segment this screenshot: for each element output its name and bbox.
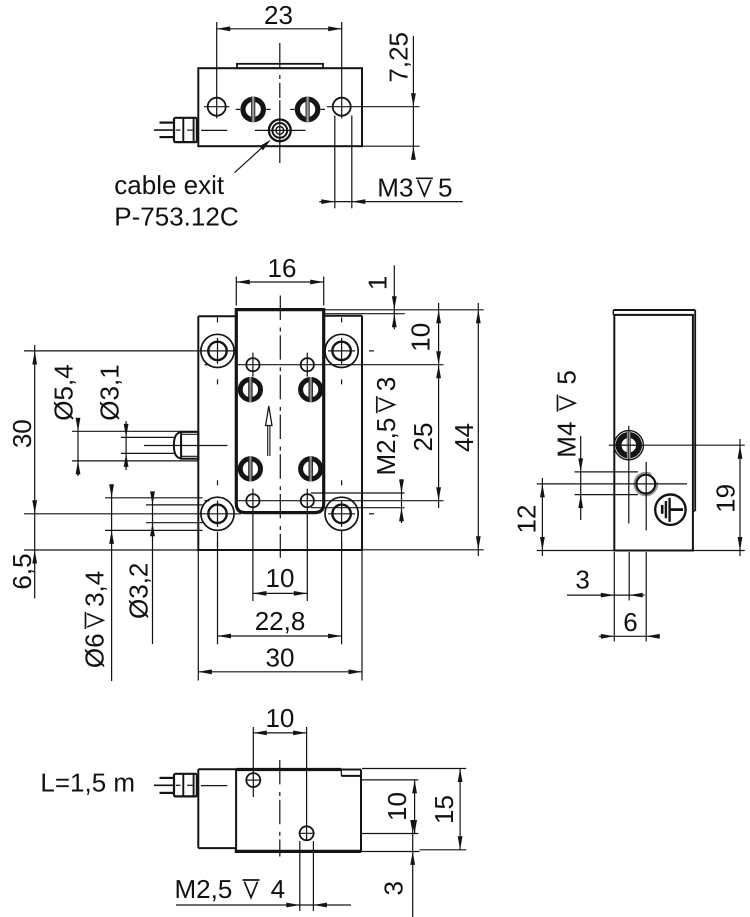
bottom view platform section (thick) (236, 768, 341, 771)
ground screw (655, 495, 685, 525)
12 reference line through M4 hole (537, 483, 687, 485)
extension lines below side body (613, 552, 615, 642)
M2,5 hole lower (bottom view) (300, 826, 314, 840)
wire 2 (top view) (154, 129, 174, 131)
M2,5 hole bottom-right (301, 494, 314, 507)
screw row line top (24, 350, 236, 352)
svg-text:M2,5: M2,5 (175, 874, 233, 904)
svg-text:10: 10 (406, 323, 436, 352)
svg-text:Ø3,2: Ø3,2 (124, 563, 154, 619)
hole axis horizontal / 19 reference (609, 444, 745, 446)
connector axis stubs (bottom view) (176, 784, 181, 786)
side body outline (614, 315, 693, 551)
svg-text:16: 16 (268, 253, 297, 283)
M2,5 hole top-right (301, 358, 314, 371)
svg-text:Ø6: Ø6 (80, 633, 110, 668)
svg-text:30: 30 (266, 643, 295, 673)
screw row line bottom (24, 513, 241, 515)
platform lip (side view) (613, 309, 695, 311)
wire 2 (bottom view) (154, 784, 174, 786)
dimension 3 (side) (567, 594, 645, 596)
svg-text:10: 10 (382, 792, 412, 821)
svg-text:cable exit: cable exit (114, 170, 225, 200)
dimension 6 (side) (599, 635, 660, 637)
svg-text:1: 1 (363, 276, 393, 290)
svg-text:10: 10 (265, 703, 294, 733)
svg-text:M2,5: M2,5 (371, 418, 401, 476)
cable lines (front view) (121, 436, 174, 438)
cable gland (front view) (174, 432, 181, 459)
platform screw top-right (301, 377, 321, 402)
dimension 10 top (bottom view) (253, 732, 306, 734)
svg-text:L=1,5 m: L=1,5 m (40, 768, 135, 798)
platform screw top-left (240, 377, 260, 402)
dimension 30 bottom (198, 671, 362, 673)
corner screw bottom-left (201, 480, 234, 547)
dimension 10 right (bottom view) (414, 780, 416, 834)
svg-text:15: 15 (429, 795, 459, 824)
cable gland connector (top view) (174, 118, 197, 142)
centre line (top view) (279, 43, 281, 98)
M4 hole axis vertical (645, 462, 647, 530)
corner screw bottom-right (325, 480, 374, 547)
M2,5 hole bottom-left (246, 494, 259, 507)
dimension 22,8 (218, 635, 342, 637)
moving platform outline (236, 310, 323, 513)
svg-text:P-753.12C: P-753.12C (114, 201, 238, 231)
dimension 30 left and 6,5 (34, 345, 36, 599)
svg-text:5: 5 (552, 370, 582, 384)
connector axis (front view) (144, 445, 228, 447)
dimension 23 (217, 28, 342, 30)
wire 3 (bottom view) (160, 792, 175, 794)
dimension 3 (bottom view) (412, 820, 414, 917)
centre line (bottom view) (279, 760, 281, 857)
dimension M2,5 depth 3 (401, 479, 403, 523)
dimension 1 (393, 265, 395, 329)
hole row extension lines to the right (362, 779, 418, 781)
dimension 19 (739, 439, 741, 556)
svg-text:12: 12 (512, 505, 542, 534)
wire 1 (top view) (160, 121, 175, 123)
svg-text:3: 3 (575, 565, 589, 595)
svg-text:M3: M3 (377, 172, 413, 202)
top view raised lip (237, 64, 323, 68)
cable bore (black filled hole, side view) (614, 431, 643, 460)
svg-text:M4: M4 (552, 422, 582, 458)
svg-text:3: 3 (371, 377, 401, 391)
cable exit crosshair (255, 129, 306, 131)
svg-text:10: 10 (266, 563, 295, 593)
platform screw bottom-left (240, 456, 260, 481)
slotted screw left (top view) (236, 97, 271, 123)
svg-text:5: 5 (438, 172, 452, 202)
svg-text:23: 23 (264, 0, 293, 30)
M2,5 thread reference lines (311, 492, 405, 494)
svg-text:3: 3 (379, 881, 409, 895)
dimension M2,5 depth 4 (299, 841, 301, 911)
dimension 10 right (438, 303, 440, 508)
hole axis vertical (black hole) (628, 426, 630, 524)
hole row centreline bottom (238, 500, 444, 502)
svg-text:25: 25 (408, 423, 438, 452)
svg-text:Ø3,1: Ø3,1 (95, 364, 125, 420)
front body outline (197, 316, 199, 550)
hole row centreline top (238, 364, 444, 366)
dimension Ø5,4 (77, 419, 79, 476)
svg-text:30: 30 (7, 419, 37, 448)
svg-text:6: 6 (623, 607, 637, 637)
svg-text:3,4: 3,4 (80, 571, 110, 607)
wire 3 (top view) (160, 136, 175, 138)
mounting hole left (top view) (208, 98, 226, 116)
platform screw bottom-right (301, 456, 321, 481)
M4 hole (side view) (636, 475, 655, 494)
dimension 16 (236, 281, 323, 283)
dimension 12 (541, 478, 543, 556)
corner screw top-right (325, 317, 374, 384)
svg-text:4: 4 (271, 874, 285, 904)
M2,5 hole upper (bottom view) (246, 773, 260, 787)
dimension M3 depth 5 (334, 116, 336, 209)
body step reference line (325, 313, 405, 315)
svg-text:7,25: 7,25 (383, 32, 413, 83)
svg-text:22,8: 22,8 (255, 606, 306, 636)
dimension 15 (459, 769, 461, 850)
svg-text:44: 44 (449, 423, 479, 452)
connector axis stubs (top view) (176, 129, 181, 131)
dimension Ø3,1 (125, 421, 127, 470)
hole column extension lines (252, 727, 254, 797)
dimension Ø3,2 (152, 492, 154, 644)
platform top extension line (324, 309, 484, 311)
motion direction arrow (267, 426, 269, 457)
dimension 7,25 (412, 36, 414, 160)
cable exit boss circles (top view) (269, 119, 291, 141)
wire 1 (bottom view) (160, 777, 175, 779)
dimension 44 (477, 303, 479, 556)
cable exit label leader (235, 142, 269, 173)
bottom view left section (197, 769, 199, 848)
dimension 10 bottom (253, 592, 307, 594)
svg-text:Ø5,4: Ø5,4 (48, 364, 78, 420)
slotted screw right (top view) (290, 97, 325, 123)
dimension 25 (436, 365, 441, 379)
top view body outline (198, 68, 362, 146)
svg-text:19: 19 (711, 484, 741, 513)
corner screw top-left (201, 317, 234, 384)
bottom extension lines (front) (197, 551, 199, 681)
svg-text:6,5: 6,5 (7, 553, 37, 589)
dimension M4 depth 5 (575, 471, 639, 473)
centre line (front view) (279, 296, 281, 558)
step at right (bottom view) (341, 769, 361, 771)
cable gland connector (bottom view) (174, 774, 197, 797)
mounting hole right M3 (top view) (333, 98, 351, 116)
dimension Ø6 depth 3,4 (111, 486, 113, 681)
M2,5 hole top-left (246, 358, 259, 371)
